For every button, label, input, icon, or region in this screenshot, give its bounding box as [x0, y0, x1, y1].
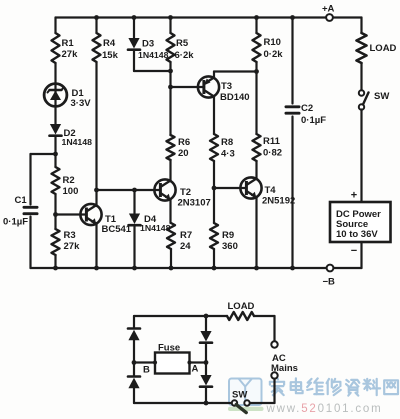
svg-text:0·82: 0·82: [263, 148, 282, 159]
bridge diode D5 (left top): [128, 329, 140, 341]
svg-text:SW: SW: [374, 91, 389, 102]
node C2 top junction: [290, 15, 295, 20]
svg-text:R3: R3: [64, 230, 76, 241]
diode D2: [50, 124, 62, 136]
label R6 20: [178, 137, 190, 159]
svg-text:SW: SW: [232, 390, 247, 401]
svg-text:3·3V: 3·3V: [71, 98, 92, 109]
wire R5 top lead: [169, 18, 171, 34]
node R5 top junction: [168, 15, 173, 20]
wire R10-R11: [255, 62, 257, 134]
transistor T2 2N3107: [154, 179, 175, 200]
resistor LOAD (ac side): [227, 312, 254, 320]
label node A: [192, 364, 199, 375]
wire fuse right lead: [190, 361, 207, 363]
label - polarity dc source: [351, 245, 357, 257]
label +A: [322, 4, 335, 15]
svg-text:4·3: 4·3: [221, 149, 235, 160]
label C1 0.1uF: [3, 195, 28, 228]
watermark text 'jiadian weixiu ziliao wang': [270, 378, 398, 396]
svg-text:1N4148: 1N4148: [140, 223, 171, 233]
node D3 top junction: [132, 15, 137, 20]
wire T1 emitter lead: [95, 223, 97, 268]
zener diode D1: [44, 84, 67, 107]
svg-text:1N4148: 1N4148: [138, 50, 169, 60]
svg-text:27k: 27k: [62, 49, 79, 60]
label -B: [323, 277, 336, 288]
label SW (dc side): [374, 91, 389, 102]
wire LOAD-SW: [360, 63, 362, 91]
capacitor C2: [286, 107, 299, 113]
wire top rail: [56, 16, 362, 18]
wire R4-node: [95, 62, 97, 190]
label LOAD (ac side): [228, 301, 255, 312]
svg-text:BD140: BD140: [220, 92, 250, 103]
svg-text:R5: R5: [176, 38, 189, 49]
wire R5-R6: [169, 62, 171, 135]
bridge diode D8 (right bottom): [200, 375, 212, 387]
wire right rail upper: [360, 18, 362, 34]
wire C1 top branch: [31, 154, 56, 205]
wire T2 collector lead: [169, 160, 171, 181]
label T3 BD140: [220, 81, 250, 103]
svg-text:C1: C1: [15, 195, 28, 206]
node R3 bottom rail junction: [53, 266, 58, 271]
wire T3 collector lead: [213, 97, 215, 135]
svg-text:R1: R1: [62, 38, 75, 49]
wire T2 emitter lead: [169, 199, 171, 223]
node D4 top junction: [132, 188, 137, 193]
switch SW (ac side): [232, 400, 250, 412]
bridge diode D6 (left bottom): [128, 377, 140, 389]
wire left mid: [133, 340, 135, 376]
svg-text:20: 20: [178, 148, 189, 159]
wire bottom rail: [31, 267, 362, 269]
wire ac right column bottom: [205, 388, 207, 404]
node T1 base junction: [53, 212, 58, 217]
wire R4 top lead: [95, 18, 97, 34]
terminal -B: [327, 265, 334, 272]
node D3-R5 junction: [168, 69, 173, 74]
label T2 2N3107: [178, 187, 211, 209]
wire C2 top lead: [291, 18, 293, 104]
wire R8-R9: [213, 161, 215, 223]
wire D2-R2: [54, 136, 56, 167]
wire D3 cathode to R5 column: [134, 50, 171, 71]
transistor T4 2N5192: [240, 177, 261, 198]
wire ac bottom rail: [134, 402, 232, 404]
svg-text:6·2k: 6·2k: [175, 50, 195, 61]
svg-text:R11: R11: [263, 136, 281, 147]
resistor R4: [93, 33, 101, 62]
label R8 4.3: [221, 137, 235, 160]
wire R1-D1: [54, 63, 56, 84]
wire T4 collector lead: [255, 161, 257, 179]
label D3 1N4148: [138, 39, 169, 61]
svg-text:LOAD: LOAD: [370, 43, 397, 54]
wire node-to-T2-base: [97, 189, 161, 191]
label R4 15k: [102, 38, 119, 61]
resistor R8: [210, 134, 218, 161]
svg-text:+: +: [351, 190, 357, 202]
label node B: [143, 365, 150, 376]
resistor R2: [52, 167, 60, 194]
node R9 bottom rail junction: [212, 266, 217, 271]
node T3 base junction: [168, 85, 173, 90]
wire R10 top lead: [255, 18, 257, 34]
label T4 2N5192: [262, 185, 295, 207]
svg-text:27k: 27k: [64, 241, 81, 252]
svg-text:360: 360: [222, 241, 238, 252]
svg-text:R7: R7: [180, 230, 192, 241]
svg-text:D3: D3: [142, 39, 154, 50]
label R3 27k: [64, 230, 81, 252]
label D1 3.3V: [71, 88, 92, 109]
node R4 top junction: [94, 15, 99, 20]
bridge diode D7 (right top): [200, 331, 212, 343]
wire ac top rail: [134, 315, 227, 317]
label R11 0.82: [263, 136, 282, 159]
node ac right bottom junction: [204, 401, 209, 406]
svg-text:+A: +A: [322, 4, 335, 15]
label R7 24: [180, 230, 192, 252]
svg-text:A: A: [192, 364, 199, 375]
wire right mid: [205, 344, 207, 376]
fuse F1 box: [153, 353, 192, 374]
node R7 bottom rail junction: [169, 266, 174, 271]
svg-text:2N3107: 2N3107: [178, 198, 211, 209]
dc power source box U1: [330, 202, 391, 242]
wire R1 top lead: [54, 18, 56, 34]
watermark url www.520101.com: [266, 403, 383, 415]
switch SW (dc side): [359, 90, 369, 109]
label R9 360: [222, 230, 238, 252]
wire T4 emitter lead: [255, 197, 257, 268]
wire R2-R3: [54, 194, 56, 229]
svg-text:0·1µF: 0·1µF: [301, 115, 326, 126]
svg-text:R8: R8: [221, 137, 233, 148]
label + polarity dc source: [351, 190, 357, 202]
resistor R5: [167, 33, 175, 62]
svg-text:R10: R10: [264, 37, 281, 48]
resistor R11: [253, 134, 261, 161]
wire D3 top lead: [133, 18, 135, 39]
wire T4 base lead: [214, 187, 246, 189]
resistor R7: [167, 223, 175, 249]
node right fuse junction: [204, 360, 209, 365]
wire T1 base lead: [56, 213, 87, 215]
wire D4 cathode lead: [133, 226, 135, 269]
wire C1 bottom lead: [29, 217, 31, 269]
svg-text:Fuse: Fuse: [158, 343, 180, 354]
wire T1 collector lead: [95, 190, 97, 206]
node T3 emitter junction: [254, 69, 259, 74]
wire DCbox-bottom rail: [360, 242, 362, 268]
svg-text:0·1µF: 0·1µF: [3, 217, 28, 228]
wire fuse left lead: [134, 361, 155, 363]
svg-text:24: 24: [180, 241, 191, 252]
svg-text:1N4148: 1N4148: [62, 137, 93, 147]
wire R7 bottom lead: [170, 249, 172, 268]
svg-text:T4: T4: [265, 185, 277, 196]
label R10 0.2k: [264, 37, 284, 60]
resistor R1: [52, 33, 60, 63]
wire C2 bottom lead: [291, 117, 293, 269]
resistor R3: [52, 229, 60, 255]
diode D4: [129, 214, 141, 226]
label D2 1N4148: [62, 128, 93, 147]
transistor T1 BC541: [80, 204, 101, 225]
svg-text:R6: R6: [178, 137, 190, 148]
wire ac left column bottom: [133, 388, 135, 403]
wire ac left column top: [133, 316, 135, 328]
transistor T3 BD140: [198, 76, 219, 97]
label C2 0.1uF: [301, 103, 326, 126]
svg-text:T2: T2: [180, 187, 191, 198]
svg-text:100: 100: [63, 186, 79, 197]
terminal AC mains lower: [271, 372, 277, 378]
label R5 6.2k: [175, 38, 195, 61]
resistor R6: [167, 135, 175, 160]
resistor R10: [253, 33, 261, 62]
label Fuse: [158, 343, 180, 354]
svg-text:B: B: [143, 365, 150, 376]
node T1 collector junction: [94, 188, 99, 193]
wire load to ac terminal: [254, 316, 275, 342]
svg-text:T3: T3: [221, 81, 232, 92]
wire D1-D2: [54, 107, 56, 125]
svg-text:−B: −B: [323, 277, 336, 288]
wire D4 top lead: [133, 190, 135, 214]
svg-text:R4: R4: [103, 38, 116, 49]
svg-text:15k: 15k: [102, 50, 119, 61]
svg-text:2N5192: 2N5192: [262, 196, 295, 207]
node left fuse junction: [132, 360, 137, 365]
wire T3 emitter to R10/R11 node: [214, 72, 257, 78]
watermark open-book logo: [228, 379, 264, 412]
resistor R9: [210, 223, 218, 249]
capacitor C1: [24, 207, 37, 213]
node D4 bottom rail junction: [132, 266, 137, 271]
wire R3-bottom: [54, 255, 56, 268]
node T4 base junction: [212, 186, 217, 191]
wire SW-DCbox: [360, 110, 362, 203]
terminal +A: [326, 14, 333, 21]
label D4 1N4148: [140, 214, 171, 233]
node C1 junction: [53, 152, 58, 157]
node ac right top junction: [204, 314, 209, 319]
svg-text:LOAD: LOAD: [228, 301, 255, 312]
label SW (ac side): [232, 390, 247, 401]
svg-text:R9: R9: [222, 230, 234, 241]
label R2 100: [63, 175, 79, 197]
resistor LOAD (dc side): [357, 33, 367, 63]
node R10 top junction: [254, 15, 259, 20]
label LOAD (dc side): [370, 43, 397, 54]
label T1 BC541: [102, 214, 132, 235]
node T4 emitter rail junction: [254, 266, 259, 271]
svg-text:0·2k: 0·2k: [264, 49, 284, 60]
svg-text:C2: C2: [301, 103, 313, 114]
diode D3: [128, 38, 140, 50]
node C2 bottom rail junction: [290, 266, 295, 271]
wire T3 base lead: [171, 86, 204, 88]
wire R9 bottom lead: [213, 249, 215, 268]
label AC Mains: [271, 353, 298, 374]
terminal AC mains upper: [271, 341, 277, 347]
svg-text:www.520101.com: www.520101.com: [266, 403, 383, 415]
wire ac right column top: [205, 316, 207, 331]
svg-text:−: −: [351, 245, 357, 257]
node T1 emitter rail junction: [94, 266, 99, 271]
wire ac lower terminal down: [250, 379, 275, 403]
svg-text:BC541: BC541: [102, 224, 132, 235]
label R1 27k: [62, 38, 79, 60]
svg-text:10 to 36V: 10 to 36V: [336, 229, 378, 240]
svg-text:R2: R2: [63, 175, 75, 186]
